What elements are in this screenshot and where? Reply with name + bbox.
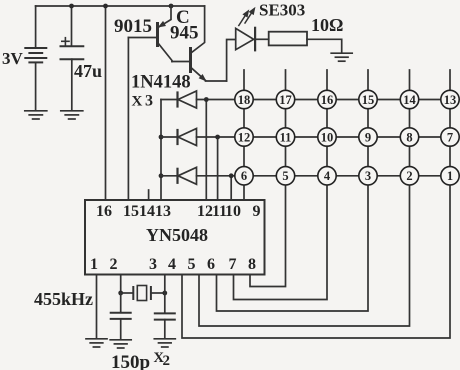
wire: row3 to pin 10 — [230, 176, 232, 200]
svg-text:10Ω: 10Ω — [311, 15, 343, 35]
svg-text:12: 12 — [238, 130, 251, 144]
wire: key column 3 to pin 7 — [234, 70, 328, 300]
svg-text:13: 13 — [444, 93, 457, 107]
light emission arrows — [239, 15, 246, 26]
svg-text:1: 1 — [90, 256, 98, 273]
svg-text:14: 14 — [403, 93, 416, 107]
svg-text:8: 8 — [406, 130, 412, 144]
capacitor C3 47u (electrolytic) — [61, 6, 84, 110]
diode D3 1N4148 (row 3) — [161, 167, 235, 184]
ground (R1) — [331, 53, 352, 61]
svg-text:1: 1 — [447, 169, 453, 183]
svg-text:14: 14 — [139, 203, 155, 220]
svg-text:2: 2 — [163, 353, 171, 369]
key 12 — [235, 128, 253, 146]
svg-text:6: 6 — [241, 169, 247, 183]
svg-text:12: 12 — [197, 203, 213, 220]
svg-text:9: 9 — [253, 203, 261, 220]
svg-text:YN5048: YN5048 — [146, 225, 208, 245]
svg-text:10: 10 — [321, 130, 334, 144]
wire: pin 1 to ground — [96, 275, 98, 339]
svg-text:3: 3 — [365, 169, 371, 183]
key 15 — [359, 90, 377, 108]
key 11 — [276, 128, 294, 146]
node: common/D2 junction — [159, 135, 164, 140]
diode D1 1N4148 (row 1) — [161, 91, 235, 108]
svg-text:8: 8 — [248, 256, 256, 273]
node: pin2/crystal/C1 — [118, 291, 123, 296]
wire: rail to pin 16 — [105, 6, 107, 200]
svg-text:16: 16 — [96, 203, 112, 220]
LED SE303 — [236, 8, 269, 50]
svg-text:15: 15 — [123, 203, 139, 220]
wire: key column 5 to pin 5 — [199, 70, 410, 326]
battery B1 3V — [25, 6, 46, 110]
key 16 — [318, 90, 336, 108]
wire: key row 2 — [235, 136, 450, 138]
svg-text:945: 945 — [170, 23, 199, 44]
svg-text:3V: 3V — [2, 49, 24, 68]
resistor R1 10Ω — [269, 32, 342, 52]
key 4 — [318, 167, 336, 185]
ground (C2) — [154, 339, 175, 347]
svg-text:X: X — [132, 94, 143, 110]
svg-text:15: 15 — [362, 93, 375, 107]
wire: row2 to pin 11 — [217, 137, 219, 200]
node: common/D3 junction — [159, 173, 164, 178]
key 3 — [359, 167, 377, 185]
ground (C1) — [110, 340, 131, 348]
ground (pin 1) — [86, 339, 107, 347]
diode D2 1N4148 (row 2) — [161, 129, 235, 146]
svg-text:9: 9 — [365, 130, 371, 144]
key 17 — [276, 90, 294, 108]
key 13 — [441, 90, 459, 108]
svg-text:150p: 150p — [111, 352, 150, 370]
wire: V+ top rail — [36, 5, 205, 7]
node: rail/pin16 junction — [103, 4, 108, 9]
crystal X1 455kHz — [121, 286, 165, 301]
wire: key column 2 to pin 8 — [250, 70, 286, 287]
svg-text:5: 5 — [188, 256, 196, 273]
svg-text:16: 16 — [321, 93, 334, 107]
svg-text:1N4148: 1N4148 — [131, 73, 191, 93]
wire: key column 1 to pin 9 — [243, 70, 245, 200]
node: row2/pin11 — [215, 135, 220, 140]
key 18 — [235, 90, 253, 108]
IC pin numbers bottom — [90, 256, 256, 273]
svg-text:SE303: SE303 — [259, 1, 305, 20]
node: row1/pin12 — [204, 97, 209, 102]
wire: Q1 base to pin 15 — [127, 38, 129, 201]
wire: key row 1 — [235, 99, 450, 101]
svg-text:13: 13 — [155, 203, 171, 220]
svg-text:11: 11 — [280, 130, 292, 144]
svg-text:7: 7 — [229, 256, 237, 273]
wire: key column 4 to pin 6 — [217, 70, 369, 311]
svg-text:2: 2 — [110, 256, 118, 273]
key 6 — [235, 167, 253, 185]
svg-text:9015: 9015 — [114, 16, 152, 37]
svg-text:2: 2 — [406, 169, 412, 183]
wire: pin 3 down — [164, 275, 166, 314]
IC U1 YN5048 — [85, 200, 265, 275]
node: rail/Q1 emitter junction — [169, 4, 174, 9]
key 2 — [400, 167, 418, 185]
svg-text:3: 3 — [149, 256, 157, 273]
svg-text:3: 3 — [145, 93, 153, 110]
node: rail/C3 junction — [69, 4, 74, 9]
key 14 — [400, 90, 418, 108]
capacitor C1 150p — [111, 293, 131, 339]
svg-text:17: 17 — [279, 93, 292, 107]
capacitor C2 150p — [155, 313, 175, 338]
svg-text:18: 18 — [238, 93, 251, 107]
key 9 — [359, 128, 377, 146]
wire: diode common line to pin 13 — [160, 100, 162, 201]
svg-text:10: 10 — [225, 203, 241, 220]
ground (C3) — [61, 111, 83, 119]
node: row3/pin10 — [229, 173, 234, 178]
svg-text:5: 5 — [282, 169, 288, 183]
wire: key column 6 to pin 4 — [182, 70, 450, 338]
node: pin3/crystal/C2 — [162, 291, 167, 296]
wire: Q2 emitter riser to LED anode — [227, 40, 235, 82]
svg-text:455kHz: 455kHz — [34, 289, 93, 309]
key 7 — [441, 128, 459, 146]
svg-text:4: 4 — [324, 169, 331, 183]
wire: key row 3 — [235, 175, 450, 177]
transistor Q1 9015 (PNP) — [128, 6, 172, 62]
key 10 — [318, 128, 336, 146]
key 8 — [400, 128, 418, 146]
wire: pin 2 to crystal — [120, 275, 122, 294]
wire: row1 to pin 12 — [205, 100, 207, 201]
key switches: 18 circles — [235, 90, 459, 185]
svg-text:6: 6 — [207, 256, 215, 273]
svg-text:7: 7 — [447, 130, 453, 144]
svg-text:47u: 47u — [74, 61, 102, 81]
wire: pin 14 stub — [148, 190, 150, 200]
transistor Q2 C945 (NPN) — [172, 6, 227, 81]
ground (battery) — [25, 111, 47, 119]
svg-text:4: 4 — [168, 256, 176, 273]
key 5 — [276, 167, 294, 185]
key 1 — [441, 167, 459, 185]
IC pin numbers top — [96, 203, 261, 220]
